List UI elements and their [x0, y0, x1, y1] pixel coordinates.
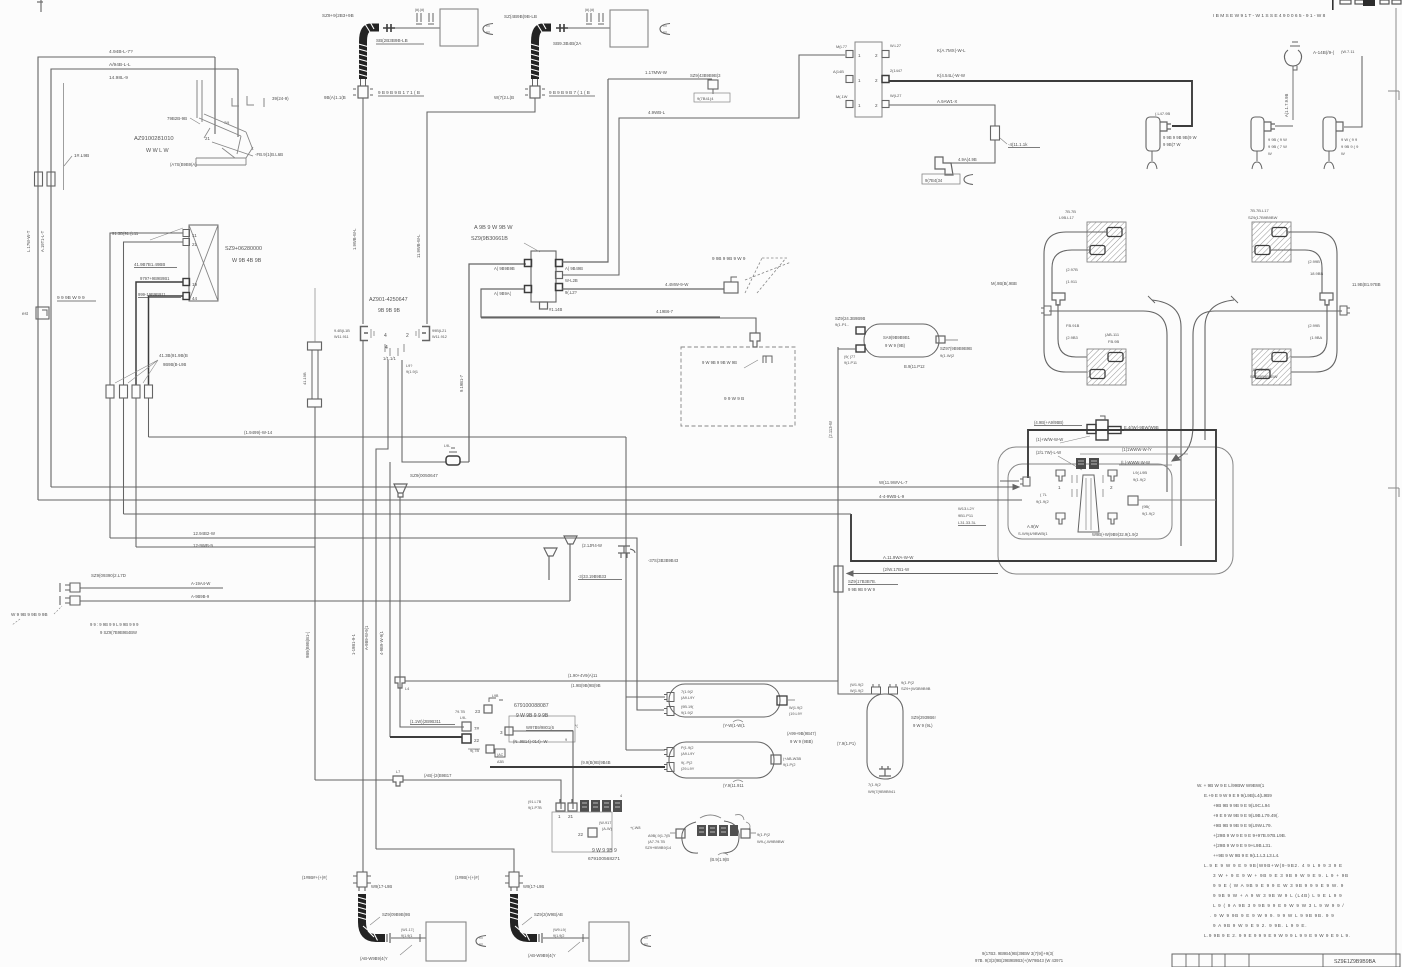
label pin 7# top — [455, 710, 466, 720]
svg-text:#1.14B: #1.14B — [549, 307, 562, 312]
label tee left — [1034, 420, 1082, 426]
svg-text:9 9B 9B 9 W 9: 9 9B 9B 9 W 9 — [848, 587, 876, 592]
svg-text:L7: L7 — [396, 770, 400, 774]
label y547 — [193, 543, 213, 548]
relay block — [855, 42, 882, 117]
wire x315 down — [314, 407, 316, 780]
svg-text:9B 9B 9B: 9B 9B 9B — [378, 308, 400, 314]
svg-text:L4: L4 — [405, 687, 409, 691]
svg-text:K(4.54L(-W-W: K(4.54L(-W-W — [937, 73, 966, 78]
svg-text:W9-(-W9B9BW: W9-(-W9B9BW — [757, 839, 785, 844]
svg-text:W9(17-L9B: W9(17-L9B — [523, 884, 544, 889]
svg-text:(2.9B3: (2.9B3 — [1066, 335, 1079, 340]
label wg-left inner — [1105, 332, 1120, 344]
wire manifold p44 — [149, 296, 184, 385]
label 4MW-B — [958, 157, 977, 162]
wire label 4.94B — [109, 49, 133, 55]
title block note — [975, 951, 1064, 963]
sheet right border — [1395, 8, 1397, 967]
connector inline left A — [35, 172, 43, 186]
svg-text:9 W 9 (9L): 9 W 9 (9L) — [913, 723, 933, 728]
wire x626 down — [625, 437, 627, 750]
label hose1 right — [378, 90, 424, 96]
label y118 — [648, 110, 666, 115]
dryer pin R stub — [945, 339, 958, 341]
dryer label — [883, 335, 911, 348]
svg-text:W(L27: W(L27 — [890, 93, 901, 98]
wire y547 — [136, 546, 315, 548]
dist pin L2 — [525, 286, 532, 293]
label elbow3 plug right — [371, 884, 392, 889]
svg-text:1.9WB-W-L: 1.9WB-W-L — [352, 228, 357, 250]
label L7 wire — [424, 773, 452, 778]
svg-text:(1)+W/W-W-W: (1)+W/W-W-W — [1036, 437, 1063, 442]
relay labels right — [890, 43, 902, 98]
svg-text:W(1.9(2: W(1.9(2 — [789, 706, 803, 710]
svg-text:9(1.9(2: 9(1.9(2 — [1133, 477, 1146, 482]
label y500 — [879, 494, 905, 499]
ecu pin 7# — [462, 722, 480, 731]
svg-text:(19.L9Y: (19.L9Y — [789, 712, 803, 716]
svg-text:A.11.9WA-W-W: A.11.9WA-W-W — [883, 555, 914, 560]
svg-text:1: 1 — [858, 103, 861, 108]
svg-text:SB(2B3B9B-LB: SB(2B3B9B-LB — [376, 38, 408, 43]
svg-text:+9B 9B 9 9B 9 E 9(L9W.L79.: +9B 9B 9 9B 9 E 9(L9W.L79. — [1213, 823, 1272, 828]
label relay mid wire — [937, 73, 966, 78]
ecu pin 22 — [462, 734, 480, 743]
wire label 14.9BL — [109, 75, 128, 81]
reservoir 2 body — [669, 742, 774, 778]
svg-text:3 W + 9 E 9 W + 9B 9 E 3 9B 9: 3 W + 9 E 9 W + 9B 9 E 3 9B 9 W 9 E 9. L… — [1213, 873, 1349, 878]
wire manifold p21 — [124, 242, 184, 385]
svg-text:SZ9(09B9B(9B: SZ9(09B9B(9B — [382, 912, 410, 917]
line protection valve — [834, 566, 843, 592]
leader tee — [1058, 436, 1090, 470]
svg-text:2: 2 — [1110, 485, 1113, 490]
svg-text:9(7B41(4: 9(7B41(4 — [697, 96, 714, 101]
svg-text:SZ9(9B30661B: SZ9(9B30661B — [471, 236, 508, 242]
C mark box1 — [483, 24, 493, 35]
svg-text:L 9 ( 9 A 9B 3 9 9B 9 9 E 9 W: L 9 ( 9 A 9B 3 9 9B 9 9 E 9 W 9 W 3 L 9 … — [1213, 903, 1344, 908]
label res3 right — [911, 715, 936, 728]
flexible hose mid-left — [308, 288, 322, 407]
svg-text:(9B(: (9B( — [1142, 504, 1150, 509]
svg-text:SZ9+9(2B3+9B: SZ9+9(2B3+9B — [322, 13, 354, 18]
label inline valve — [444, 444, 450, 448]
svg-text:7(1.9(2: 7(1.9(2 — [681, 690, 693, 694]
svg-text:4-9B9-W-9(1: 4-9B9-W-9(1 — [379, 630, 384, 655]
label res2 plugs — [681, 746, 695, 771]
label y437 — [244, 430, 273, 435]
label psw note — [90, 622, 139, 635]
label balancer right — [599, 821, 640, 831]
axle line y454 — [1080, 453, 1188, 455]
label tank feed1 — [571, 683, 601, 688]
boxed label step — [922, 174, 960, 184]
wire front supply 1 top — [38, 57, 215, 500]
svg-text:(4.9B(+A9/9BB): (4.9B(+A9/9BB) — [1034, 420, 1064, 425]
svg-text:2: 2 — [406, 333, 409, 339]
svg-text:9 W 9 (9BB): 9 W 9 (9BB) — [790, 739, 813, 744]
res2 plug bottom — [664, 763, 674, 772]
label dist bottom — [549, 307, 562, 312]
vertical label line51 — [40, 230, 45, 252]
svg-text:-3(33.19B9B33: -3(33.19B9B33 — [578, 574, 607, 579]
label wg-left top — [1059, 209, 1076, 220]
battery box dashed — [681, 347, 795, 426]
svg-text:A.9AW1-X: A.9AW1-X — [937, 99, 957, 104]
svg-text:SZB(9B9B9BW: SZB(9B9B9BW — [1250, 374, 1278, 379]
label elbow4 plug right — [523, 884, 544, 889]
svg-text:79B2B-9B: 79B2B-9B — [167, 116, 187, 121]
svg-text:9 A 9B 9 W 9 E 9 2. 9 9B. L 9: 9 A 9B 9 W 9 E 9 2. 9 9B. L 9 9 E. — [1213, 923, 1307, 928]
svg-text:4-4-9WB-L-9: 4-4-9WB-L-9 — [879, 494, 905, 499]
pv port 3 — [1056, 513, 1065, 524]
label pv far left — [958, 506, 986, 526]
label battery inner — [724, 396, 744, 401]
label hose1 left — [324, 95, 346, 100]
svg-text:L31.33.3L: L31.33.3L — [958, 520, 977, 525]
tee fitting axle — [1087, 416, 1121, 440]
wire resistor down — [951, 140, 995, 163]
svg-text:SZ9(17B9B9BW: SZ9(17B9B9BW — [1248, 215, 1278, 220]
label dist pinL2 — [494, 291, 512, 296]
svg-text:7B.7B.L17: 7B.7B.L17 — [1250, 208, 1269, 213]
svg-text:9B9(B9B(B1-(: 9B9(B9B(B1-( — [305, 631, 310, 658]
label tee note2 — [1036, 450, 1061, 455]
mini plugs box2 — [585, 8, 604, 24]
svg-text:. 9 W 9 9B 9 E 9 W 9 9. 9 9 W: . 9 W 9 9B 9 E 9 W 9 9. 9 9 W L 9 9B 9B.… — [1210, 913, 1335, 918]
label res1 fitting — [789, 706, 803, 716]
label hose2 right — [549, 90, 595, 96]
border tick mid right — [1388, 488, 1399, 497]
s-curve hose 2 — [1148, 296, 1181, 546]
axle thin bottom ext — [847, 571, 998, 576]
connector row A — [106, 385, 114, 398]
svg-text:(2.97B: (2.97B — [1066, 267, 1078, 272]
axle bold loop — [851, 430, 1216, 561]
label res2 below — [723, 780, 744, 788]
svg-text:SZ9(17B3B7B.: SZ9(17B3B7B. — [848, 579, 876, 584]
vertical label x376 — [364, 625, 369, 650]
label bracket bottom — [170, 162, 197, 167]
wire pin3 — [513, 731, 573, 809]
svg-text:9 9B 9 9B 9B(9 W: 9 9B 9 9B 9B(9 W — [1163, 135, 1197, 140]
fitting y79 — [708, 80, 718, 94]
svg-text:A-9B9-W-9(1: A-9B9-W-9(1 — [364, 625, 369, 650]
border tick upper right — [1388, 91, 1399, 100]
svg-text:FB.91B: FB.91B — [1066, 323, 1080, 328]
label check valve — [410, 473, 438, 478]
svg-text:9 9 9B W 9 9: 9 9 9B W 9 9 — [57, 295, 85, 301]
balancer box — [552, 812, 612, 852]
label switch1 pin — [1155, 111, 1170, 116]
wire x626 branch1 — [626, 696, 665, 698]
label dryer left low — [844, 355, 857, 365]
svg-text:1: 1 — [558, 814, 561, 819]
label L4 branch — [568, 673, 598, 678]
air filter cloud — [682, 815, 750, 854]
wire dist R3 horn — [562, 288, 724, 290]
svg-text:4: 4 — [620, 794, 622, 798]
label port right — [432, 329, 447, 339]
label wg-left mid1 — [1066, 267, 1078, 284]
box 1 — [440, 9, 478, 46]
svg-text:21: 21 — [205, 136, 210, 141]
svg-text:A(1.1.7.9.9B: A(1.1.7.9.9B — [1284, 94, 1289, 117]
label res3 topright — [901, 680, 931, 691]
relay row2 — [846, 76, 889, 84]
svg-text:7#: 7# — [474, 726, 480, 731]
wire ecu bold out — [490, 766, 665, 768]
label wire44 — [138, 292, 181, 298]
svg-text:W: W — [1341, 151, 1345, 156]
svg-text:12.94B2-W: 12.94B2-W — [193, 531, 216, 536]
C mark box4 — [641, 936, 651, 947]
svg-text:18.9BB: 18.9BB — [1310, 271, 1323, 276]
svg-text:1.17MW-W: 1.17MW-W — [645, 70, 668, 75]
svg-text:1: 1 — [858, 53, 861, 58]
label elbow3 fit — [401, 928, 415, 938]
svg-text:1-19B1-9-1: 1-19B1-9-1 — [351, 633, 356, 655]
wire pinB down — [402, 360, 446, 462]
svg-text:(AC: (AC — [497, 753, 504, 757]
ecu pin 3 — [500, 727, 513, 735]
sensor vertical label — [1284, 94, 1289, 117]
vertical label x315 — [305, 631, 310, 658]
label flex hose — [302, 372, 307, 385]
svg-text:(AB-W9B9(4(Y: (AB-W9B9(4(Y — [528, 953, 556, 958]
vertical label x469 — [459, 374, 464, 392]
wire dist R2 — [562, 55, 845, 275]
wire y487 — [51, 485, 1019, 490]
wire L7 line — [315, 779, 393, 781]
port numbers — [384, 333, 409, 351]
svg-text:L9B: L9B — [492, 694, 499, 698]
label bracket left — [167, 116, 200, 124]
label tee right — [1124, 425, 1168, 431]
axle outer box — [998, 447, 1233, 574]
svg-text:W: W — [1268, 151, 1272, 156]
front axle bracket — [196, 80, 264, 167]
label dist pinR3 — [565, 290, 578, 295]
svg-text:9.19B1-7: 9.19B1-7 — [459, 374, 464, 392]
svg-text:(Y-W(1-W(1: (Y-W(1-W(1 — [723, 723, 746, 728]
label thin left — [883, 567, 910, 572]
svg-text:9 9 E ( W A 9B 9 E 9 9 E W 3 9: 9 9 E ( W A 9B 9 E 9 9 E W 3 9B 9 9 9 E … — [1213, 883, 1344, 888]
wire y513 — [124, 513, 852, 515]
svg-text:W97B9/9801(6: W97B9/9801(6 — [526, 725, 555, 730]
wire tank3 feed — [838, 681, 872, 694]
vent nozzle B — [564, 536, 577, 601]
svg-text:9: 9 — [565, 738, 567, 742]
svg-text:E.4/IW(-9BW/W9B: E.4/IW(-9BW/W9B — [1124, 425, 1159, 430]
comp A body — [1251, 117, 1264, 151]
res3 bottom fitting — [879, 766, 891, 776]
svg-text:E.+9 E 9 W 9 E 9 9(L9B)L4(L9B9: E.+9 E 9 W 9 E 9 9(L9B)L4(L9B9 — [1204, 793, 1272, 798]
svg-text:W 9 9B 9 9B 9 9B: W 9 9B 9 9B 9 9B — [11, 612, 48, 617]
label three way — [648, 558, 679, 563]
svg-text:(2.113-W: (2.113-W — [828, 421, 833, 438]
label bold left — [883, 555, 914, 560]
label wire19 — [134, 262, 177, 268]
horn funnel sketch — [745, 258, 791, 293]
label compB wire — [1341, 49, 1355, 54]
label filter below — [710, 853, 729, 862]
svg-text:W9(17-L9B: W9(17-L9B — [371, 884, 392, 889]
svg-text:21: 21 — [568, 814, 574, 819]
svg-text:19: 19 — [192, 282, 198, 287]
svg-text:79.7B: 79.7B — [455, 710, 465, 714]
label psw upper — [191, 581, 210, 586]
svg-text:9 B 9 B 9 B 1 7 1 ( B: 9 B 9 B 9 B 1 7 1 ( B — [378, 90, 420, 95]
svg-text:+9B 9B 9 9B 9 E 9(L9C.L94: +9B 9B 9 9B 9 E 9(L9C.L94 — [1213, 803, 1270, 808]
dryer pin R — [936, 336, 945, 343]
svg-text:11.9WB-W-L: 11.9WB-W-L — [416, 234, 421, 258]
svg-text:9(7B4(34: 9(7B4(34 — [925, 178, 943, 183]
svg-text:A(14B: A(14B — [833, 69, 844, 74]
label wg-right low — [1250, 367, 1278, 379]
check valve — [394, 484, 407, 497]
wire manifold p19 — [136, 282, 183, 385]
wire pinA down — [376, 360, 388, 849]
corner tick top-left — [37, 0, 43, 12]
wire pressure sw lower — [80, 600, 570, 602]
reservoir 3 body — [867, 694, 903, 779]
svg-text:(A9.L9Y: (A9.L9Y — [681, 752, 695, 756]
svg-text:14.98L-9: 14.98L-9 — [109, 75, 128, 81]
reservoir 1 body — [669, 684, 780, 717]
axle inner box — [1008, 464, 1172, 539]
wire relay bottom — [889, 105, 995, 126]
svg-text:M(.9B(B(.9BB: M(.9B(B(.9BB — [991, 281, 1017, 286]
svg-text:L.17W-W-T: L.17W-W-T — [26, 230, 31, 252]
label resistor — [1000, 138, 1040, 148]
svg-text:679100568271: 679100568271 — [588, 856, 620, 862]
vertical label line38 — [26, 230, 31, 252]
wire x363 lower — [362, 340, 364, 872]
label dist pinR1 — [565, 266, 583, 271]
relay labels left — [833, 44, 848, 99]
svg-text:(2/1.7W)-L-W: (2/1.7W)-L-W — [1036, 450, 1061, 455]
label y487 — [879, 480, 908, 485]
battery symbol — [763, 356, 772, 363]
svg-text:(1.90+4V9(A)11: (1.90+4V9(A)11 — [568, 673, 598, 678]
res1 right fitting — [777, 696, 795, 705]
svg-text:W(7(2.L(B: W(7(2.L(B — [494, 95, 514, 100]
label axle note4 — [1121, 460, 1150, 465]
label port left — [334, 329, 350, 339]
svg-text:9B(A)1.1(B: 9B(A)1.1(B — [324, 95, 346, 100]
label 1#.L9 — [64, 153, 89, 166]
svg-text:(1.9BA: (1.9BA — [1310, 335, 1323, 340]
label pv left — [1036, 492, 1049, 504]
dist pin R3 — [556, 284, 563, 291]
svg-text:(A7S(B9B9(A): (A7S(B9B9(A) — [170, 162, 197, 167]
svg-text:SZ(4B9B(9B-LB: SZ(4B9B(9B-LB — [504, 14, 537, 19]
svg-text:(9.9(B(9B(9B4B: (9.9(B(9B(9B4B — [581, 760, 611, 765]
svg-text:(A-W): (A-W) — [602, 827, 613, 831]
label elbow2 top — [504, 14, 537, 19]
comp B connector — [1336, 122, 1343, 131]
s-curve hose 3 — [1172, 311, 1215, 461]
svg-text:9(1.9(1: 9(1.9(1 — [401, 934, 412, 938]
label fitting y79 box — [694, 93, 730, 102]
svg-text:SB9.3B4B(2A: SB9.3B4B(2A — [553, 41, 582, 46]
svg-text:*(: *( — [575, 724, 578, 728]
wheel group rear-right — [1215, 222, 1350, 385]
svg-text:9 9B 9 9B 9 W 9: 9 9B 9 9B 9 W 9 — [712, 256, 746, 261]
box 2 — [610, 10, 648, 47]
dist pin L1 — [525, 260, 532, 267]
svg-text:(.L47.9B: (.L47.9B — [1155, 111, 1170, 116]
svg-text:9(..P(2: 9(..P(2 — [681, 761, 692, 765]
valve manifold box — [189, 225, 218, 301]
wire dryer down — [838, 347, 856, 681]
label dryer right — [940, 346, 972, 358]
svg-text:-37S(3B3B9B43: -37S(3B3B9B43 — [648, 558, 679, 563]
label axle note3 — [1122, 447, 1152, 452]
pv left plug — [1000, 477, 1030, 486]
label pv bottom2 — [1092, 532, 1139, 537]
svg-text:-FB.9(1(B.L6B: -FB.9(1(B.L6B — [255, 152, 283, 157]
label elbow4 plug left — [455, 875, 480, 880]
svg-text:44: 44 — [192, 296, 198, 301]
wire front supply 2 top — [51, 69, 238, 487]
distribution valve body — [531, 251, 556, 302]
svg-text:(W.7.11: (W.7.11 — [1341, 49, 1355, 54]
wire dist L2 loop — [481, 289, 720, 317]
air filter label block — [697, 825, 738, 836]
label dryer below — [904, 364, 925, 369]
svg-text:(1(1WWW-W-/Y: (1(1WWW-W-/Y — [1122, 447, 1152, 452]
C mark step — [964, 175, 973, 185]
svg-text:9 9B(7 W: 9 9B(7 W — [1163, 142, 1181, 147]
svg-text:A( 9B9B9B: A( 9B9B9B — [494, 266, 515, 271]
svg-text:SZ9E1Z9B9B9BA: SZ9E1Z9B9B9BA — [1334, 959, 1376, 965]
svg-text:L.9 9B 9 E 2. 9 9 E 9 9 9 E 9: L.9 9B 9 E 2. 9 9 E 9 9 9 E 9 W 9 9 L 9 … — [1204, 933, 1350, 938]
brake switch 1 body — [1146, 117, 1160, 151]
label pins ref — [406, 364, 418, 374]
resistor inline — [991, 126, 1000, 140]
wire x374 to elbow2 — [376, 849, 514, 872]
wire y79 to solenoid — [608, 78, 712, 80]
label tee note1 — [1036, 437, 1063, 442]
svg-text:9 9B ( 9 W: 9 9B ( 9 W — [1268, 137, 1287, 142]
svg-text:(91.L7B: (91.L7B — [528, 800, 542, 804]
svg-text:W. + 9B W 9 E L/99BW W9BW(1: W. + 9B W 9 E L/99BW W9BW(1 — [1197, 783, 1265, 788]
svg-text:9(1.9(1: 9(1.9(1 — [406, 370, 418, 374]
svg-text:9(17B3. 9B9B4(9B(39BW 3(7(9()+: 9(17B3. 9B9B4(9B(39BW 3(7(9()+9(3( — [982, 951, 1054, 956]
label elbow1 mid — [376, 38, 424, 44]
relay row1 — [846, 51, 889, 59]
label wg-right top — [1248, 208, 1278, 220]
protection valve label block — [1076, 458, 1099, 469]
svg-text:(1#9B#+(+(#(: (1#9B#+(+(#( — [302, 875, 328, 880]
distribution valve label — [471, 225, 513, 242]
svg-text:M(.1W: M(.1W — [836, 94, 848, 99]
svg-text:41.3B(91.9B(B: 41.3B(91.9B(B — [159, 353, 188, 358]
ecu outline — [509, 716, 575, 742]
leader dist — [524, 243, 540, 252]
dryer pin L1 — [856, 327, 865, 334]
wire y500 — [38, 499, 1022, 501]
relay row3 — [846, 101, 889, 109]
svg-text:4.9A(4.9B: 4.9A(4.9B — [958, 157, 977, 162]
svg-text:9 B 9 B 9 B 7 ( 1 ( B: 9 B 9 B 9 B 7 ( 1 ( B — [549, 90, 590, 95]
wire L7 to balancer — [403, 780, 561, 809]
svg-text:9(1.P(2: 9(1.P(2 — [901, 680, 915, 685]
